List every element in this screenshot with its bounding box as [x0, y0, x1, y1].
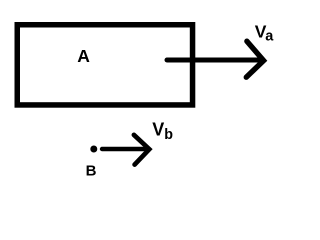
svg-text:A: A — [77, 46, 90, 66]
svg-text:B: B — [86, 162, 97, 179]
svg-text:V: V — [152, 119, 164, 139]
svg-text:b: b — [164, 127, 173, 143]
svg-text:a: a — [265, 28, 274, 44]
